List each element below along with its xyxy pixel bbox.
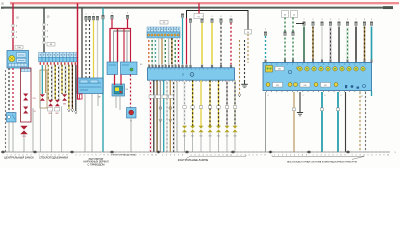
wire: P4 out 6 — [166, 80, 168, 152]
tags under X81-X82 — [48, 108, 60, 112]
P3 lower row: lamp L4 — [334, 83, 338, 87]
wire: red link y28.5 — [110, 28, 132, 30]
tags on P3 teal outs — [292, 108, 339, 111]
svg-text:X40: X40 — [183, 135, 186, 137]
wire: grey x127 — [126, 31, 128, 62]
wire: red x117.5 — [117, 29, 119, 63]
wire: strip X4 pin 10 — [71, 65, 73, 109]
svg-text:6: 6 — [256, 155, 257, 157]
wire stubs below P20 — [9, 122, 13, 152]
svg-text:8: 8 — [364, 19, 365, 21]
wire: red-white dashed x231 — [230, 19, 233, 65]
wire: X2 pin 6 to P4 — [164, 38, 166, 65]
mirror switch block P20 — [7, 113, 17, 123]
contact cells in P19 — [17, 53, 27, 63]
wire: P4 out 14 — [218, 80, 220, 127]
wire: yellow x202 — [201, 19, 204, 65]
connector X80 — [40, 94, 45, 101]
wire: X2 pin 1 to P4 — [148, 38, 150, 65]
P4 bottom pin ticks — [150, 81, 233, 82]
tag on P4 out 16 — [233, 106, 236, 109]
svg-text:1: 1 — [304, 19, 305, 21]
wire: P3 out teal x322 — [321, 92, 323, 152]
tag under P23 — [130, 121, 132, 123]
wire: P3 feed 6 — [346, 22, 349, 63]
tag on P4 out 15 — [225, 106, 228, 109]
tag X2 — [160, 21, 168, 25]
wire: dark feed bus15 to connector strip X4 — [43, 8, 45, 53]
lamp symbol in P19 — [9, 56, 15, 62]
wire: P3 feed 8 — [363, 22, 366, 63]
wire: strip X4 pin 8 — [65, 65, 67, 94]
wire: red feed bus30 to switch unit P19 — [12, 3, 14, 50]
label above P3 feed 1 — [304, 19, 305, 21]
wire: P4 out 10 — [184, 80, 186, 127]
tag 30A — [245, 30, 252, 35]
svg-text:9: 9 — [107, 155, 108, 157]
label above P3 feed 2 — [313, 19, 314, 21]
wire: white-black dashed x221 — [220, 19, 223, 65]
svg-text:СТЕКЛОПОДЪЕМНИКИ: СТЕКЛОПОДЪЕМНИКИ — [39, 156, 68, 160]
pin number row under P3 — [266, 91, 366, 93]
monitor module P22 — [112, 84, 125, 96]
wire: P3 feed 3 — [321, 22, 324, 63]
wire: red x130.5 — [130, 29, 132, 63]
wire: X2 pin 4 to P4 — [158, 38, 160, 65]
svg-text:F1: F1 — [198, 16, 200, 18]
svg-text:30: 30 — [247, 32, 249, 34]
svg-text:9: 9 — [371, 19, 372, 21]
wire: strip X4 pin 6 — [58, 65, 60, 100]
sensor block P23 — [127, 108, 137, 119]
label above P3 feed 6 — [347, 19, 348, 21]
wires below P22 — [116, 95, 120, 110]
wire: X2 pin 5 to P4 — [161, 38, 163, 65]
splice circles — [159, 107, 172, 110]
legend end label — [394, 152, 396, 154]
P3 lower row: lamp L1 — [266, 83, 270, 87]
wire: P4 out 13 — [209, 80, 211, 127]
fuse tag A — [282, 11, 289, 18]
P3 lower row: tag 207 — [321, 83, 331, 88]
wire: P4 out 2 — [153, 80, 155, 152]
wire tails to band — [40, 101, 61, 152]
wire: strip X4 pin 7 — [61, 65, 63, 94]
wire: tan dashed x248 down — [247, 34, 249, 63]
svg-text:1: 1 — [75, 155, 76, 157]
svg-text:10: 10 — [387, 155, 389, 157]
wire: P4 out 9 — [176, 80, 178, 152]
wire: dashed grey x89.5 — [89, 20, 91, 78]
wire: red loop at P21 — [78, 78, 83, 99]
P3 lower row: tag 205 — [273, 83, 283, 88]
svg-text:206: 206 — [303, 85, 306, 87]
P3 top number row — [266, 63, 366, 64]
tag on P4 out 10 — [183, 106, 186, 109]
P3 tag T1 — [275, 67, 284, 71]
wire: P3 feed 9 — [370, 22, 373, 63]
connector X81 — [48, 100, 53, 107]
svg-text:4: 4 — [268, 95, 269, 97]
wire: X2 pin 9 to P4 — [174, 38, 176, 65]
tag on P4 out 13 — [208, 106, 211, 109]
label above P3 feed 7 — [356, 19, 357, 21]
svg-text:X82: X82 — [55, 113, 58, 115]
wire: blue dashed x265.5 — [264, 32, 267, 63]
tag X8 — [98, 97, 101, 99]
cell row atop harness box — [21, 69, 30, 72]
wire: strip X4 pin 4 — [51, 65, 53, 100]
svg-text:X44: X44 — [217, 135, 220, 137]
svg-text:КОНТРОЛЬНЫЕ ЛАМПЫ: КОНТРОЛЬНЫЕ ЛАМПЫ — [178, 158, 209, 162]
labels above caps — [103, 13, 129, 15]
P3 fuse circle row — [298, 67, 365, 71]
jumper bus top — [187, 11, 249, 31]
wire: red into P22 left — [114, 75, 116, 86]
svg-text:3: 3 — [170, 155, 171, 157]
wire: strip X4 pin 9 — [68, 65, 70, 109]
wire-end at x239.5 — [238, 94, 241, 97]
P21 internals — [79, 80, 101, 90]
svg-text:1: 1 — [231, 16, 232, 18]
svg-text:1: 1 — [103, 13, 104, 15]
connector strip X4 — [39, 53, 78, 62]
wire: teal run x103 — [102, 8, 104, 152]
power bus 15 (dark feed rail) — [1, 7, 393, 9]
svg-text:4: 4 — [112, 13, 113, 15]
wire: green dashed x285 — [284, 18, 287, 63]
svg-text:4: 4 — [248, 155, 249, 157]
cell row at P19 bottom — [9, 63, 28, 66]
splice ticks on dark feed — [43, 24, 45, 44]
tag on jumper — [194, 14, 204, 19]
wire: X2 pin 8 to P4 — [171, 38, 173, 65]
fuse number labels F10/F6/F2 — [16, 18, 20, 40]
wire: yellow x212 — [211, 19, 214, 65]
P3 glyphs right — [345, 85, 366, 89]
svg-text:X83: X83 — [63, 104, 66, 106]
svg-text:8: 8 — [103, 155, 104, 157]
svg-text:6: 6 — [127, 13, 128, 15]
label above P3 feed 5 — [339, 19, 340, 21]
wire: P4 out 15 — [226, 80, 228, 127]
svg-text:≡: ≡ — [182, 73, 184, 77]
wire: P3 feed 4 — [329, 22, 332, 63]
svg-text:3: 3 — [83, 155, 84, 157]
bus 15 end terminal — [383, 6, 393, 9]
svg-text:4: 4 — [87, 155, 88, 157]
tags near K1 K2 — [140, 64, 143, 66]
svg-text:6: 6 — [325, 95, 326, 97]
svg-text:5: 5 — [178, 155, 179, 157]
wire: X2 pin 3 to P4 — [154, 38, 156, 65]
svg-text:ЭЛЕКТРОПРИВОД ЛЮКА: ЭЛЕКТРОПРИВОД ЛЮКА — [111, 154, 137, 157]
connector X83 — [62, 94, 67, 101]
svg-text:10: 10 — [151, 155, 153, 157]
wire: yellow x93.5 — [93, 20, 95, 78]
wire: grey x190.5 — [189, 19, 192, 65]
svg-text:X41: X41 — [191, 135, 194, 137]
svg-text:9: 9 — [147, 155, 148, 157]
svg-text:1: 1 — [162, 155, 163, 157]
connector X12 inside harness — [23, 107, 36, 114]
wire-end chevrons — [159, 119, 172, 122]
wire: P3 out grey x265.5 — [265, 92, 267, 152]
svg-text:7: 7 — [260, 155, 261, 157]
pin row below X4 — [40, 62, 76, 65]
wire: grey drop x33 — [32, 108, 34, 152]
wire: red x110 — [109, 29, 111, 63]
wire: tan drop in run — [45, 65, 47, 93]
wire: X2 pin 7 to P4 — [168, 38, 170, 65]
wire: green dashed x293 — [292, 18, 295, 63]
legend bracket: warning lamps — [186, 155, 246, 159]
wires below P21 — [85, 94, 98, 153]
connector on P4 out 12 — [199, 126, 204, 152]
ground G2 — [297, 113, 303, 116]
wire: P4 out 5 — [163, 80, 165, 152]
wire: dashed grey to legend band — [5, 70, 7, 152]
wire: P4 out 4 — [159, 80, 161, 152]
relay block K2 — [121, 62, 138, 75]
legend label: comm devices — [287, 160, 357, 163]
display unit P21 — [77, 78, 103, 94]
wire: dashed black below P19 — [8, 68, 10, 113]
svg-text:2: 2 — [166, 155, 167, 157]
svg-text:9: 9 — [383, 155, 384, 157]
wire: P3 out dark x345.5 — [345, 92, 347, 152]
tag X4 — [47, 43, 55, 47]
wire: P3 out dark x300 — [299, 92, 301, 112]
svg-text:6: 6 — [135, 155, 136, 157]
svg-text:2: 2 — [303, 95, 304, 97]
legend baseline — [2, 151, 390, 153]
wire: P3 feed 7 — [355, 22, 358, 63]
svg-text:2: 2 — [313, 19, 314, 21]
wire: grey x113.5 — [113, 31, 115, 62]
harness run box left — [21, 68, 32, 122]
svg-text:8: 8 — [264, 155, 265, 157]
svg-text:201: 201 — [278, 69, 281, 71]
svg-text:X46: X46 — [233, 135, 236, 137]
legend numbers — [6, 155, 389, 157]
P4 top number row — [150, 69, 229, 70]
wire: red drop x199 — [198, 3, 200, 13]
tag on P4 out 14 — [217, 106, 220, 109]
wire: P4 out 16 — [234, 80, 236, 127]
labels above bundle — [86, 14, 95, 16]
legend label: heater — [111, 154, 137, 157]
wire: P3 feed 5 — [338, 22, 341, 63]
wire: dashed dark x244.5 — [244, 40, 246, 82]
label above P3 feed 9 — [371, 19, 372, 21]
svg-text:2: 2 — [79, 155, 80, 157]
svg-text:X42: X42 — [199, 135, 202, 137]
svg-text:207: 207 — [324, 85, 327, 87]
terminal caps x103/x112/x127.5 — [102, 15, 129, 19]
fuse number labels on dark feed — [47, 17, 50, 39]
wire: strip X4 pin 11 — [75, 65, 77, 111]
terminal caps above bundle — [85, 16, 99, 20]
body control unit P3 — [263, 63, 372, 91]
wire: P4 out 8 — [173, 80, 175, 152]
svg-text:X45: X45 — [225, 135, 228, 137]
svg-text:2: 2 — [265, 29, 266, 31]
svg-text:3: 3 — [202, 16, 203, 18]
svg-text:X43: X43 — [208, 135, 211, 137]
relay block K1 — [107, 62, 118, 75]
connector on P4 out 13 — [208, 126, 213, 152]
connector X11 inside harness — [23, 94, 35, 101]
svg-text:7: 7 — [356, 19, 357, 21]
legend label: central lock — [4, 156, 34, 160]
wire: black feed bus15 x82 — [81, 8, 83, 78]
wire: P3 out teal x338 — [337, 92, 339, 152]
labels under P3 pins — [268, 95, 364, 98]
wire: P3 out tan dashed x360 — [359, 92, 361, 152]
svg-text:8: 8 — [143, 155, 144, 157]
wire: P3 out grey dashed x365.5 — [365, 92, 367, 152]
wire below P23 — [130, 118, 132, 152]
P3 lower row: lamp L2 — [288, 83, 298, 87]
wire-end chevrons under X4 pins — [68, 109, 78, 114]
svg-text:ВЫСОКОЧАСТОТНАЯ СИСТЕМА КОММУТ: ВЫСОКОЧАСТОТНАЯ СИСТЕМА КОММУТАЦИОННЫХ П… — [287, 160, 357, 163]
legend label: windows — [39, 156, 68, 160]
wire: pale grey x97.5 — [97, 20, 99, 78]
svg-text:11: 11 — [155, 155, 157, 157]
svg-text:4: 4 — [174, 155, 175, 157]
wire: P3 out tan x294 — [293, 92, 295, 152]
connector X82 — [55, 100, 60, 107]
svg-text:X11: X11 — [33, 98, 36, 100]
wire: red x186.5 — [186, 18, 188, 65]
ground G1 — [241, 82, 248, 88]
central control unit P4 — [148, 68, 235, 80]
P3 lower row: tag 206 — [300, 83, 310, 88]
P3 symbol S2 — [288, 67, 299, 74]
wire: P4 out 11 — [192, 80, 194, 127]
wire: P3 feed 2 — [312, 22, 315, 63]
power bus 30 (pink feed rail) — [10, 2, 399, 4]
wire: X2 pin 2 to P4 — [151, 38, 153, 65]
switch unit P19 — [7, 51, 29, 69]
svg-text:ЦЕНТРАЛЬНЫЙ ЗАМОК: ЦЕНТРАЛЬНЫЙ ЗАМОК — [4, 156, 34, 160]
svg-text:6: 6 — [347, 19, 348, 21]
connector strip X2 — [147, 27, 180, 38]
svg-text:8: 8 — [221, 16, 222, 18]
svg-text:7: 7 — [139, 155, 140, 157]
legend tick marks — [7, 151, 388, 153]
wire: P4 out 1 — [150, 80, 152, 152]
svg-text:2: 2 — [86, 14, 87, 16]
P3 symbol S1 — [266, 66, 273, 73]
svg-text:5: 5 — [339, 19, 340, 21]
wire: X2 pin 10 to P4 — [178, 38, 180, 65]
svg-text:205: 205 — [276, 85, 279, 87]
label tags on P4 outs — [149, 95, 174, 98]
svg-text:7: 7 — [375, 155, 376, 157]
connector on P4 out 16 — [233, 126, 238, 152]
wire: dashed tan x239.5 — [239, 40, 241, 94]
tag X9 — [126, 89, 129, 91]
connector on P4 out 11 — [190, 126, 195, 152]
fuse tag B — [291, 11, 298, 18]
wire: dashed grey x86 — [85, 20, 87, 78]
wire: red-white dashed below P19 — [12, 68, 14, 113]
legend bracket: comm devices — [272, 155, 364, 159]
svg-text:6: 6 — [182, 155, 183, 157]
wire: red feed bus30 x77.5 — [77, 3, 79, 78]
svg-text:X7: X7 — [361, 96, 363, 98]
legend label: warning lamps — [178, 158, 209, 162]
stub right corner — [371, 91, 373, 97]
connector tag X16 — [15, 46, 23, 50]
wire: dark link y31 — [114, 30, 131, 32]
legend label: mirrors — [83, 158, 108, 167]
wire: P4 out 7 — [169, 80, 171, 152]
label above P3 feed 4 — [330, 19, 331, 21]
wire: red dashed to P23 — [130, 75, 132, 108]
wire: strip X4 pin 3 — [47, 65, 49, 100]
svg-text:5: 5 — [93, 14, 94, 16]
wire: red into P22 right — [120, 75, 122, 86]
svg-text:8: 8 — [379, 155, 380, 157]
connector on P4 out 10 — [182, 126, 187, 152]
wire: hook into x304 — [296, 23, 304, 25]
connector X13 below harness — [20, 126, 28, 138]
wire: cyan x182.5 — [181, 14, 184, 65]
wire: red x112 upper — [111, 19, 113, 29]
labels above P4 feeds — [202, 16, 232, 18]
connector labels under X81-83 — [48, 104, 66, 115]
svg-text:8: 8 — [341, 95, 342, 97]
svg-text:6: 6 — [95, 155, 96, 157]
svg-text:5: 5 — [367, 155, 368, 157]
P4 icons — [182, 73, 194, 77]
wire: P3 feed 1 — [303, 22, 306, 63]
svg-text:5: 5 — [252, 155, 253, 157]
svg-text:5: 5 — [91, 155, 92, 157]
svg-text:4: 4 — [330, 19, 331, 21]
connector on P4 out 15 — [225, 126, 230, 152]
tag above x265.5 — [265, 29, 266, 31]
wire: cyan inside run — [41, 65, 43, 94]
svg-text:6: 6 — [371, 155, 372, 157]
bus label 15 — [1, 7, 4, 10]
label above P3 feed 8 — [364, 19, 365, 21]
section divider markers — [1, 151, 350, 154]
bus label 30 — [1, 2, 4, 5]
svg-text:3: 3 — [322, 19, 323, 21]
svg-text:X81: X81 — [48, 113, 51, 115]
wire: strip X4 pin 5 — [54, 65, 56, 100]
svg-text:С ПРИВОДОМ: С ПРИВОДОМ — [88, 163, 105, 166]
wire: P4 out 3 — [156, 80, 158, 152]
harness run box with cyan wire — [40, 70, 47, 108]
pin row on P4 — [148, 65, 232, 68]
wire: P4 out 12 — [200, 80, 202, 127]
svg-text:5: 5 — [212, 16, 213, 18]
svg-text:7: 7 — [99, 155, 100, 157]
pin row on P3 — [265, 60, 373, 63]
tag on P4 out 12 — [199, 106, 202, 109]
wire: red x127.5 upper — [127, 19, 129, 29]
wire: red x124 — [123, 29, 125, 63]
label above P3 feed 3 — [322, 19, 323, 21]
P3 lower row: lamp L3 — [314, 83, 318, 87]
connector on P4 out 14 — [216, 126, 221, 152]
wire: harness tail to band — [23, 134, 25, 152]
